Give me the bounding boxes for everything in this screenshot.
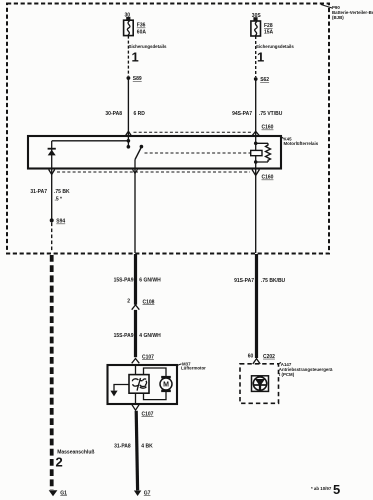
fuse F28 terminal 30S — [252, 13, 262, 21]
svg-text:2: 2 — [56, 455, 63, 470]
svg-text:.75 BK/BU: .75 BK/BU — [261, 278, 286, 284]
svg-text:.5 *: .5 * — [55, 197, 63, 203]
K45 label leader — [281, 137, 284, 139]
wire 15S-PA9 4 GN/WH (heavy) — [134, 310, 137, 357]
svg-text:Motorlüfterrelais: Motorlüfterrelais — [284, 141, 319, 146]
svg-text:F36: F36 — [137, 23, 146, 29]
wire 15S-PA9 6 GN/WH (heavy) — [134, 254, 137, 305]
connector arrow into relay box top (middle) — [125, 131, 131, 136]
svg-text:6 RD: 6 RD — [134, 111, 146, 117]
svg-text:2: 2 — [127, 299, 130, 305]
svg-text:G7: G7 — [144, 490, 151, 496]
svg-text:S89: S89 — [133, 76, 142, 82]
svg-text:S62: S62 — [260, 77, 269, 83]
wire through fan box — [135, 365, 137, 404]
A147 label leader — [279, 363, 282, 364]
svg-text:1: 1 — [257, 50, 264, 65]
svg-text:t (PCM): t (PCM) — [279, 372, 295, 377]
svg-text:C107: C107 — [142, 411, 154, 417]
svg-text:15S-PA9: 15S-PA9 — [114, 333, 134, 339]
node S62 — [254, 77, 258, 81]
battery junction box P90 (dashed boundary) — [7, 4, 329, 254]
node P90 label leader — [321, 5, 332, 9]
svg-text:94S-PA7: 94S-PA7 — [232, 111, 252, 117]
svg-text:31-PA8: 31-PA8 — [114, 443, 131, 449]
ground G7 — [134, 491, 141, 497]
connector C160 (bottom) — [252, 170, 259, 176]
resistor across coil — [256, 143, 268, 162]
svg-text:6 GN/WH: 6 GN/WH — [139, 278, 161, 284]
svg-text:Sicherungsdetails: Sicherungsdetails — [129, 44, 167, 49]
wire relay switch to BJB edge — [134, 168, 136, 253]
wire fuse F36 to S89 (dashed) — [127, 36, 129, 76]
wire S89 to relay box — [127, 78, 129, 136]
switch actuating link (dashed) — [145, 152, 251, 154]
wire 91S-PA7 .75 BK/BU (heavy) — [255, 254, 258, 358]
internal ground symbol — [110, 391, 117, 397]
svg-text:F28: F28 — [264, 23, 273, 29]
svg-text:.75 BK: .75 BK — [54, 189, 70, 195]
svg-text:S94: S94 — [56, 219, 65, 225]
node S89 — [126, 76, 130, 80]
relay switch — [127, 136, 129, 141]
ground wire Masseanschluss (heavy dashed) — [50, 255, 54, 490]
connector C107 (bottom) — [132, 405, 139, 410]
connector C108 pin 2 — [132, 305, 140, 310]
relay connector boundary dashes (bottom) — [57, 171, 250, 173]
svg-text:C160: C160 — [262, 175, 274, 181]
svg-text:Sicherungsdetails: Sicherungsdetails — [256, 44, 294, 49]
svg-text:15A: 15A — [264, 30, 274, 36]
relay K45 box — [28, 136, 281, 169]
motor loop wire — [144, 368, 167, 377]
motor M brushes — [161, 376, 171, 379]
connector arrow below relay (switch leg) — [133, 170, 138, 174]
ground G1 — [49, 490, 58, 496]
svg-text:G1: G1 — [60, 490, 67, 496]
wire S94 to BJB edge (dashed) — [51, 223, 53, 253]
relay coil branch wire — [255, 136, 257, 169]
svg-text:4 BK: 4 BK — [141, 443, 153, 449]
wire fuse F28 to S62 (dashed) — [255, 36, 257, 77]
svg-text:Lüftermotor: Lüftermotor — [181, 366, 206, 371]
svg-text:C108: C108 — [143, 299, 155, 305]
relay coil K45 — [251, 150, 262, 155]
PCM A147 box (dashed) — [240, 364, 279, 404]
wire C160 to BJB edge — [255, 168, 257, 253]
internal ground stub — [114, 385, 129, 391]
svg-text:C160: C160 — [262, 125, 274, 131]
fan glyph — [132, 378, 146, 390]
svg-text:1: 1 — [132, 50, 139, 65]
thermal limiter / fan block — [129, 375, 149, 394]
wire S62 to C160 — [255, 79, 257, 136]
fan motor M37 box — [108, 365, 178, 404]
fuse F28 — [251, 21, 261, 36]
wire diode to switch — [52, 140, 129, 142]
svg-text:C107: C107 — [142, 354, 154, 360]
connector C107 (top) — [132, 359, 140, 364]
connector C202 pin 60 — [253, 359, 260, 364]
diode (relay clamp) — [51, 141, 53, 169]
svg-text:5: 5 — [333, 482, 340, 497]
svg-text:60: 60 — [248, 353, 254, 359]
svg-text:91S-PA7: 91S-PA7 — [234, 278, 254, 284]
node S94 — [50, 218, 54, 222]
motor M circle — [160, 378, 172, 390]
svg-text:31-PA7: 31-PA7 — [30, 189, 47, 195]
wire relay to S94 — [51, 168, 53, 219]
footnote — [311, 482, 340, 497]
relay connector boundary dashes (top) — [134, 131, 252, 133]
svg-text:.75 VT/BU: .75 VT/BU — [259, 111, 283, 117]
connector arrow below relay (left leg) — [49, 170, 55, 175]
wire 31-PA8 4 BK (heavy) — [136, 411, 137, 491]
svg-text:60A: 60A — [137, 29, 147, 35]
svg-text:M: M — [163, 382, 169, 389]
svg-text:4 GN/WH: 4 GN/WH — [139, 333, 161, 339]
svg-text:C202: C202 — [263, 354, 275, 360]
svg-text:Masseanschluß: Masseanschluß — [57, 449, 94, 455]
svg-text:* ab 10/97: * ab 10/97 — [311, 486, 332, 491]
fuse F36 — [124, 20, 134, 35]
M37 label leader — [177, 364, 182, 366]
fuse F36 terminal 30 — [125, 13, 131, 21]
PCM module symbol U — [252, 376, 269, 392]
svg-text:30-PA8: 30-PA8 — [105, 111, 122, 117]
svg-text:15S-PA9: 15S-PA9 — [114, 278, 134, 284]
svg-text:(BJB): (BJB) — [332, 15, 344, 20]
